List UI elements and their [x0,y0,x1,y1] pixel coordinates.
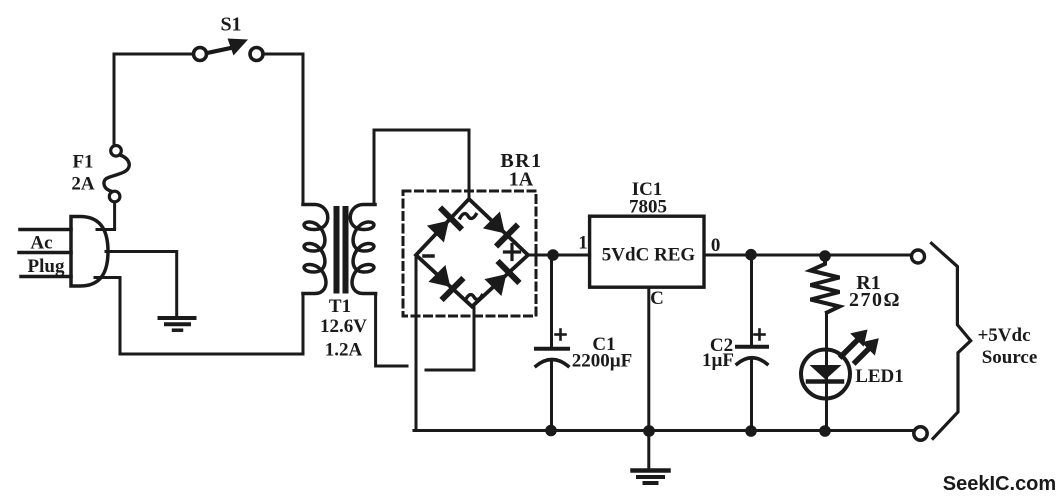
ground (earth) symbol near plug [160,318,195,330]
svg-text:2200µF: 2200µF [572,351,633,372]
resistor R1 [811,256,840,313]
capacitor C1 [536,255,568,431]
svg-text:T1: T1 [329,296,351,317]
svg-text:2A: 2A [71,174,95,195]
bottom ground rail [414,429,912,432]
node junction dot IC out / C2 [745,249,757,261]
svg-text:12.6V: 12.6V [320,316,367,337]
IC1 regulator box [590,216,704,287]
node junction dot LED bottom [819,425,831,437]
ground symbol main [633,471,669,484]
svg-text:1A: 1A [509,169,534,191]
wire secondary bottom jog toward bridge [376,294,407,366]
svg-text:270Ω: 270Ω [849,289,901,311]
node junction dot IC ground [643,425,655,437]
fuse F1 [104,146,129,202]
svg-text:1.2A: 1.2A [325,340,363,361]
wire IC1 output rail to top terminal [704,254,912,257]
node junction dot C2 bottom [745,425,757,437]
wire R1 bottom through LED to rail [825,313,828,431]
wire from S1 right contact down to transformer primary top [263,54,303,205]
plug prong line 1 [20,228,71,232]
svg-text:1: 1 [578,233,588,254]
wire plug bottom pin down and along bottom to transformer primary bottom [95,278,303,355]
node junction dot C1 bottom [545,425,557,437]
svg-text:SeekIC.com: SeekIC.com [943,473,1056,495]
bridge diamond [416,199,528,307]
wire bridge bottom corner jog [426,307,474,370]
diode D-bottomright [484,263,517,296]
svg-text:S1: S1 [220,14,241,36]
diode D-bottomleft [428,265,461,298]
wire top-left loop: from left vertical up and across to switch S1 left contact [114,54,194,145]
diode D-topright [483,211,516,244]
LED1 [801,350,850,399]
wire IC1 C pin to ground [647,288,650,470]
diode D-topleft [427,210,460,243]
svg-text:Source: Source [982,347,1038,368]
svg-text:0: 0 [711,235,721,256]
bridge rectifier BR1 dashed outline [403,191,536,316]
svg-text:Ac: Ac [30,233,52,254]
plug prong line 3 [21,275,71,279]
svg-text:C: C [650,288,664,309]
svg-text:Plug: Plug [28,256,65,277]
C1 plus mark [556,330,566,340]
output terminal top [912,250,925,263]
svg-text:1µF: 1µF [702,350,734,371]
output terminal bottom [914,427,927,440]
svg-text:F1: F1 [72,152,93,173]
bridge + mark right [505,245,520,260]
svg-text:LED1: LED1 [855,366,904,387]
wire bridge + output to IC1 input [529,254,590,257]
wire secondary top to bridge top corner [374,130,469,205]
svg-text:+5Vdc: +5Vdc [977,325,1030,346]
bridge - mark left [424,254,433,258]
svg-text:7805: 7805 [629,197,667,218]
wire bridge minus corner down to ground rail [415,257,418,431]
capacitor C2 [737,255,767,431]
transformer T1 core bars [334,206,349,294]
node junction dot bridge+/C1/IC1 [547,249,559,261]
output brace [932,243,971,438]
node junction dot R1 top [819,250,831,262]
LED1 arrow 2 [856,338,879,362]
wire plug middle pin to ground [106,252,177,318]
LED1 arrow 1 [842,330,868,357]
svg-text:5VdC REG: 5VdC REG [602,245,696,266]
plug prong line 2 [19,251,71,255]
bridge ~ mark top [460,214,476,219]
wire fuse bottom to plug top prong [97,202,115,230]
C2 plus mark [755,330,765,340]
bridge ~ mark bottom [466,295,482,300]
switch S1 [194,39,264,61]
AC plug body [71,217,108,287]
transformer T1 secondary winding [350,205,375,294]
transformer T1 primary winding [303,205,328,294]
